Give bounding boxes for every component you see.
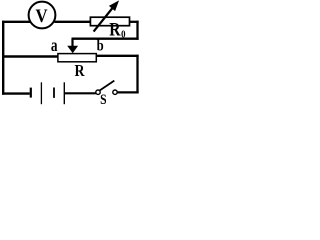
wire: slider arm horizontal [72,38,139,40]
wire: left vertical bus [2,21,4,95]
svg-text:b: b [97,37,104,54]
wire: right vertical lower segment [136,55,138,94]
wire: switch to right bus [117,91,138,93]
wire: battery to switch [65,92,96,94]
wire: voltmeter to rheostat R0 [54,21,90,23]
wire: left bus to R terminal a [2,55,58,57]
resistor R body [58,54,96,62]
svg-text:S: S [100,91,106,108]
switch S left contact [96,90,100,94]
wire: R0 right terminal to right bus [130,21,139,23]
rheostat R0 body [90,17,129,26]
switch S lever [100,81,115,91]
battery cell 2 long plate [63,82,65,104]
rheostat R0 arrow [94,1,119,31]
battery cell 1 long plate [40,82,42,104]
label R0 [109,19,125,41]
battery cell 2 short plate [53,88,55,98]
voltmeter V [29,2,56,29]
svg-text:R: R [109,19,121,40]
wire: bottom left to battery [2,92,30,94]
wire: R terminal b to right bus [96,55,138,57]
svg-text:R: R [74,62,85,81]
wire: right vertical upper segment [136,21,138,40]
battery cell 1 short plate [30,88,32,98]
svg-text:a: a [51,36,58,55]
switch S right contact [113,90,117,94]
wire: top left segment to voltmeter [2,21,30,23]
svg-text:V: V [35,5,47,26]
slider arrow onto R [67,39,78,54]
